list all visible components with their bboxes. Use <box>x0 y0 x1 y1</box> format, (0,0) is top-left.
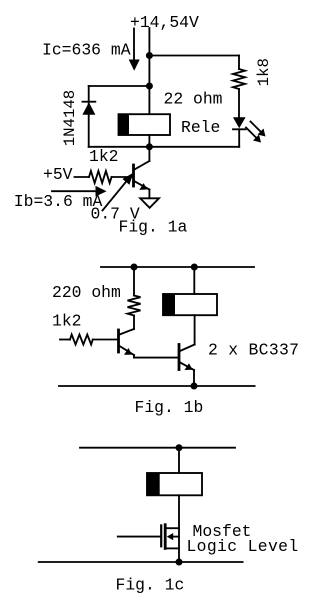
wire emitter to base Q2 <box>134 357 178 359</box>
svg-text:22 ohm: 22 ohm <box>164 89 223 108</box>
node junction relay <box>191 264 198 271</box>
0.7V pointer arrow <box>103 173 134 211</box>
relay coil K3 <box>147 473 202 495</box>
node junction bottom <box>176 559 183 566</box>
node junction top <box>146 52 153 59</box>
wire relay bottom stub <box>148 135 150 147</box>
LED light arrow 2 <box>246 128 261 143</box>
ground <box>140 198 159 208</box>
svg-text:Logic Level: Logic Level <box>187 537 299 556</box>
wire top rail <box>101 266 254 268</box>
resistor 1k2 <box>60 335 118 345</box>
svg-text:220 ohm: 220 ohm <box>52 283 121 302</box>
node junction bottom rail <box>191 383 198 390</box>
svg-text:+14,54V: +14,54V <box>130 13 199 32</box>
transistor Q1 (BC337) <box>119 329 135 358</box>
diode 1N4148 <box>82 102 95 115</box>
wire top horizontal to 1k8 <box>149 55 239 57</box>
wire to diode top <box>89 85 150 87</box>
wire bottom horizontal <box>89 146 240 148</box>
svg-text:1k8: 1k8 <box>255 58 273 86</box>
svg-text:Fig. 1c: Fig. 1c <box>116 576 185 595</box>
LED D2 <box>233 117 246 147</box>
svg-text:+5V: +5V <box>43 165 73 184</box>
relay coil K1 <box>119 114 171 135</box>
svg-text:1k2: 1k2 <box>52 312 82 331</box>
svg-text:2 x BC337: 2 x BC337 <box>208 341 299 360</box>
wire relay top stub <box>193 267 195 294</box>
svg-text:Ib=3.6 mA: Ib=3.6 mA <box>14 192 103 211</box>
node junction diode branch <box>146 83 153 90</box>
wire relay top stub <box>178 448 180 473</box>
transistor Q1 <box>134 147 150 198</box>
wire diode vertical <box>88 86 90 147</box>
wire bottom rail <box>59 385 255 387</box>
svg-text:Fig. 1a: Fig. 1a <box>119 218 188 237</box>
resistor base 5V <box>75 171 133 183</box>
wire relay bottom to collector <box>194 315 196 344</box>
Ib current arrow <box>52 186 107 197</box>
mosfet M1 <box>118 525 179 549</box>
node junction bottom <box>146 143 153 150</box>
resistor 220 ohm <box>128 267 141 329</box>
svg-text:Fig. 1b: Fig. 1b <box>135 398 204 417</box>
relay coil K2 <box>163 294 217 315</box>
svg-text:Ic=636 mA: Ic=636 mA <box>42 41 131 60</box>
resistor 1k8 <box>233 56 245 118</box>
transistor Q2 (BC337) <box>179 345 195 387</box>
wire bottom rail <box>39 561 243 563</box>
wire top rail <box>80 447 235 449</box>
wire main vertical from supply <box>148 28 150 114</box>
svg-text:1N4148: 1N4148 <box>61 90 79 146</box>
wire relay bottom to drain <box>178 495 180 562</box>
svg-text:Rele: Rele <box>181 118 220 137</box>
svg-text:1k2: 1k2 <box>89 147 119 166</box>
LED light arrow 1 <box>251 122 266 137</box>
Ic current arrow <box>129 29 140 71</box>
node junction resistor <box>131 264 138 271</box>
node junction top <box>176 444 183 451</box>
